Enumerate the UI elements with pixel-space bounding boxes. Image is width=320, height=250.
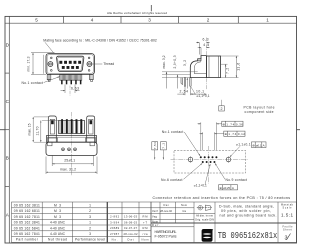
svg-text:28-nov-02: 28-nov-02 <box>160 209 173 213</box>
svg-text:09 65 162 7811: 09 65 162 7811 <box>14 215 40 219</box>
svg-text:1: 1 <box>89 203 91 207</box>
svg-text:RM: RM <box>143 215 149 219</box>
svg-text:09 65 162 7841: 09 65 162 7841 <box>14 232 40 236</box>
svg-text:27957: 27957 <box>110 232 120 236</box>
svg-text:⌀0,1: ⌀0,1 <box>256 143 262 147</box>
svg-text:M 3: M 3 <box>54 215 61 219</box>
svg-text:Nut thread: Nut thread <box>48 238 67 242</box>
svg-text:0,36: 0,36 <box>236 122 243 126</box>
svg-text:A: A <box>263 143 265 147</box>
svg-text:max. 31,2: max. 31,2 <box>60 168 76 172</box>
svg-text:2: 2 <box>207 18 210 23</box>
svg-text:⌀1,1+0,1: ⌀1,1+0,1 <box>197 94 210 98</box>
svg-text:No.6 contact: No.6 contact <box>161 178 183 182</box>
svg-text:max. 15: max. 15 <box>28 123 32 135</box>
svg-text:Vag: Vag <box>152 215 158 219</box>
svg-text:1: 1 <box>89 221 91 225</box>
svg-text:F-95072 Paris: F-95072 Paris <box>155 235 177 239</box>
svg-text:/Ja: /Ja <box>143 232 149 236</box>
svg-text:09 65 162 6841: 09 65 162 6841 <box>14 226 40 230</box>
svg-text:Sheet: Sheet <box>283 228 292 231</box>
svg-text:4: 4 <box>91 18 94 23</box>
svg-text:TB 0965162x81x: TB 0965162x81x <box>218 231 278 241</box>
svg-text:29689: 29689 <box>110 226 120 230</box>
svg-text:B: B <box>6 156 9 161</box>
svg-text:nut and grounding board lock.: nut and grounding board lock. <box>220 214 277 218</box>
svg-text:Dat: Dat <box>164 203 169 207</box>
svg-text:09 65 162 6811: 09 65 162 6811 <box>14 209 40 213</box>
svg-text:2,54: 2,54 <box>180 90 189 94</box>
svg-text:6,3: 6,3 <box>203 38 209 42</box>
svg-text:No.1 contact: No.1 contact <box>22 81 44 85</box>
svg-text:Performance level: Performance level <box>75 238 105 242</box>
svg-text:25±0,1: 25±0,1 <box>64 158 75 162</box>
svg-text:Dat: Dat <box>128 238 134 242</box>
svg-text:HARTING EURL: HARTING EURL <box>155 230 177 234</box>
svg-text:1,74: 1,74 <box>228 132 236 136</box>
svg-text:3,2: 3,2 <box>183 60 187 66</box>
svg-text:⌀1,1±0,1: ⌀1,1±0,1 <box>236 142 251 146</box>
svg-text:D-Sub, male, standard angle,: D-Sub, male, standard angle, <box>219 204 274 208</box>
svg-text:09 pins, with solder pin,: 09 pins, with solder pin, <box>221 209 271 213</box>
svg-text:max. 3,2: max. 3,2 <box>162 55 166 68</box>
svg-text:Scale: Scale <box>283 206 293 209</box>
svg-text:1,74: 1,74 <box>226 122 234 126</box>
svg-text:6,63: 6,63 <box>71 87 79 91</box>
svg-text:2: 2 <box>89 226 91 230</box>
svg-text:7,2: 7,2 <box>162 142 166 148</box>
svg-text:13-06-03: 13-06-03 <box>124 215 138 219</box>
svg-text:No.9 contact: No.9 contact <box>226 178 248 182</box>
svg-text:M 3: M 3 <box>54 209 61 213</box>
svg-text:4-40 UNC: 4-40 UNC <box>50 221 66 225</box>
svg-text:No.1 contact: No.1 contact <box>162 130 184 134</box>
svg-text:2-892: 2-892 <box>110 215 120 219</box>
svg-text:0,12: 0,12 <box>238 132 245 136</box>
svg-text:11,6: 11,6 <box>236 63 240 71</box>
svg-text:2: 2 <box>89 209 91 213</box>
svg-text:3: 3 <box>89 215 91 219</box>
svg-text:Verif: Verif <box>152 209 158 213</box>
svg-text:4,5: 4,5 <box>203 43 209 47</box>
svg-text:3: 3 <box>89 232 91 236</box>
svg-text:02-07-07: 02-07-07 <box>124 226 138 230</box>
svg-text:Ref.: Ref. <box>152 223 160 227</box>
svg-text:Mating face according to : MIL: Mating face according to : MIL-C-24308 /… <box>43 38 157 42</box>
svg-text:09 65 162 3811: 09 65 162 3811 <box>14 203 40 207</box>
svg-text:4-40 UNC: 4-40 UNC <box>50 232 66 236</box>
svg-text:+T: +T <box>143 220 147 224</box>
svg-text:2: 2 <box>221 107 223 111</box>
svg-text:Connector retention and insert: Connector retention and insertion forces… <box>153 196 291 200</box>
svg-text:5: 5 <box>35 18 38 23</box>
svg-text:7,54: 7,54 <box>153 142 157 149</box>
svg-text:⌀0,25: ⌀0,25 <box>223 186 230 190</box>
svg-text:06-09-03: 06-09-03 <box>124 220 138 224</box>
svg-text:Part number: Part number <box>16 238 39 242</box>
svg-text:A: A <box>232 186 234 190</box>
svg-text:09 65 162 3841: 09 65 162 3841 <box>14 221 40 225</box>
svg-text:Alle Rechte vorbehalten/ All r: Alle Rechte vorbehalten/ All rights rese… <box>107 11 167 15</box>
svg-text:Thread: Thread <box>103 62 114 66</box>
svg-text:/Ja: /Ja <box>182 209 187 213</box>
svg-text:3: 3 <box>148 18 151 23</box>
svg-text:1: 1 <box>266 18 269 23</box>
svg-text:28-nov-02: 28-nov-02 <box>124 232 139 236</box>
svg-text:Nom: Nom <box>142 238 150 242</box>
svg-text:component side: component side <box>245 110 274 114</box>
svg-text:Orig. scale DIN: Orig. scale DIN <box>195 217 214 221</box>
svg-text:Nom: Nom <box>152 219 158 223</box>
svg-text:RM: RM <box>143 226 149 230</box>
svg-text:7,2: 7,2 <box>226 68 230 74</box>
svg-text:1.5:1: 1.5:1 <box>281 213 293 218</box>
svg-text:min. 17,3: min. 17,3 <box>27 56 31 71</box>
svg-text:All dim. in mm: All dim. in mm <box>196 214 213 218</box>
svg-text:10,1: 10,1 <box>196 90 204 94</box>
svg-text:M 3: M 3 <box>54 203 61 207</box>
svg-text:Nom: Nom <box>181 203 187 207</box>
svg-text:2,9+0,3: 2,9+0,3 <box>173 55 177 68</box>
svg-text:4-40 UNC: 4-40 UNC <box>50 226 66 230</box>
svg-text:No.: No. <box>112 238 118 242</box>
svg-text:3-994: 3-994 <box>110 220 120 224</box>
svg-text:11,70: 11,70 <box>35 126 39 135</box>
